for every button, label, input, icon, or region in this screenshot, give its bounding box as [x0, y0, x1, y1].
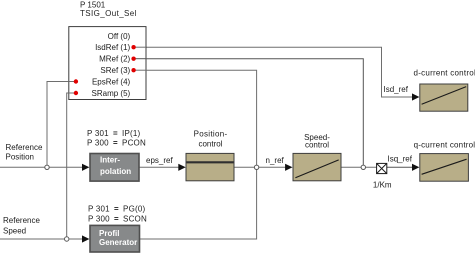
arrow into speed-control — [285, 164, 292, 171]
wire stub pin5 inside box — [68, 92, 76, 94]
wire Isq_ref multiplier to q-current control — [387, 166, 413, 168]
wire stub pin2 inside box — [134, 58, 147, 60]
position-control block — [186, 153, 234, 180]
q-current control block — [420, 154, 469, 182]
profile generator block — [90, 225, 140, 252]
svg-text:q-current control: q-current control — [414, 140, 475, 149]
wire stub pin3 inside box — [134, 69, 147, 71]
svg-text:Generator: Generator — [99, 238, 137, 247]
svg-text:P 300=PCON: P 300=PCON — [87, 138, 146, 147]
pin dot MRef (2) — [131, 57, 135, 61]
wire SRamp tap (selector pin 5 down to speed junction) — [67, 93, 76, 239]
wire IsdRef / Isd_ref to d-current control — [134, 47, 413, 97]
svg-text:d-current control: d-current control — [414, 69, 475, 78]
arrow into profile generator — [82, 235, 89, 242]
svg-text:SRef (3): SRef (3) — [100, 66, 130, 75]
wire MRef tap down to torque node — [134, 59, 363, 168]
wire EpsRef tap (junction up to selector pin 4) — [47, 82, 76, 168]
junction node torque reference — [361, 165, 365, 169]
junction node n_ref — [254, 165, 258, 169]
wire stub pin4 inside box — [68, 81, 76, 83]
svg-text:Isq_ref: Isq_ref — [388, 155, 413, 164]
arrow into d-current control — [412, 93, 419, 100]
svg-text:P 301=IP(1): P 301=IP(1) — [87, 129, 141, 138]
wire reference-speed input — [0, 238, 82, 240]
svg-text:Position: Position — [6, 152, 34, 161]
interpolation block — [90, 154, 139, 182]
svg-text:Inter-: Inter- — [100, 156, 120, 165]
svg-text:Isd_ref: Isd_ref — [384, 85, 409, 94]
svg-text:Reference: Reference — [6, 143, 43, 152]
svg-text:P 300=SCON: P 300=SCON — [88, 214, 147, 223]
svg-text:P 301=PG(0): P 301=PG(0) — [88, 204, 146, 213]
svg-text:TSIG_Out_Sel: TSIG_Out_Sel — [80, 9, 137, 18]
svg-text:control: control — [198, 140, 222, 149]
wire position-control output to speed-control — [234, 166, 286, 168]
wire speed-control output to multiplier — [341, 166, 376, 168]
speed-control block — [293, 153, 341, 180]
arrow into q-current control — [412, 164, 419, 171]
svg-text:MRef (2): MRef (2) — [99, 55, 130, 64]
svg-text:control: control — [305, 141, 329, 150]
svg-text:Reference: Reference — [3, 216, 40, 225]
pin dot EpsRef (4) — [74, 79, 78, 83]
pin dot SRamp (5) — [74, 91, 78, 95]
wire SRef tap / profile generator output loop — [134, 70, 257, 239]
wire stub pin1 inside box — [134, 46, 147, 48]
svg-text:SRamp (5): SRamp (5) — [92, 89, 131, 98]
pin dot IsdRef (1) — [131, 45, 135, 49]
pin dot SRef (3) — [131, 68, 135, 72]
arrow into interpolation — [82, 164, 89, 171]
svg-text:EpsRef (4): EpsRef (4) — [92, 77, 131, 86]
svg-text:eps_ref: eps_ref — [146, 156, 173, 165]
d-current control block — [420, 84, 468, 111]
selector box P 1501 TSIG_Out_Sel — [69, 27, 146, 100]
svg-text:Off (0): Off (0) — [108, 32, 131, 41]
multiplier 1/Km — [377, 163, 387, 173]
junction node reference position — [45, 165, 49, 169]
svg-text:n_ref: n_ref — [266, 156, 285, 165]
svg-text:Position-: Position- — [194, 130, 228, 139]
svg-text:Profil: Profil — [99, 229, 119, 238]
junction node reference speed — [65, 237, 69, 241]
svg-text:1/Km: 1/Km — [373, 181, 392, 190]
svg-text:P 1501: P 1501 — [80, 0, 106, 9]
arrow into position-control — [178, 164, 185, 171]
svg-text:IsdRef (1): IsdRef (1) — [95, 43, 130, 52]
svg-text:Speed: Speed — [3, 226, 26, 235]
wire eps_ref — [140, 166, 179, 168]
svg-text:polation: polation — [100, 167, 131, 176]
wire reference-position input — [0, 166, 82, 168]
